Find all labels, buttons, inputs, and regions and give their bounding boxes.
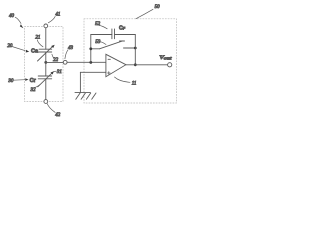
svg-text:Ca: Ca: [31, 48, 39, 54]
terminal 43: [63, 60, 67, 64]
wire Cr to terminal 42: [45, 79, 47, 100]
label 53: [95, 40, 106, 45]
label 52: [95, 22, 107, 29]
label 22: [52, 54, 59, 63]
svg-text:21: 21: [35, 36, 40, 41]
node switch left: [89, 47, 92, 50]
node switch right: [134, 47, 137, 50]
svg-text:43: 43: [68, 46, 74, 51]
label 41: [48, 13, 60, 23]
node output junction: [134, 63, 137, 66]
wire CF branch left: [91, 34, 112, 36]
svg-text:30: 30: [8, 79, 14, 84]
capacitor CF: [112, 29, 115, 39]
sensor dashed box 40: [25, 27, 64, 102]
label 50: [136, 5, 160, 19]
wire terminal 43 to op-amp inverting input: [67, 61, 106, 63]
terminal Vout: [168, 63, 172, 67]
label 30: [8, 78, 28, 84]
label 42: [47, 103, 61, 118]
svg-text:41: 41: [55, 13, 60, 18]
label 20: [7, 44, 29, 52]
label 11: [115, 77, 137, 86]
label 43: [65, 46, 74, 59]
label 21: [35, 36, 43, 47]
amplifier dashed box 50: [84, 19, 177, 103]
svg-text:Vout: Vout: [159, 55, 172, 61]
svg-text:52: 52: [95, 22, 101, 27]
label Vout: [159, 55, 172, 61]
wire non-inverting input: [80, 72, 106, 92]
wire node to terminal 43: [46, 61, 64, 63]
wire Ca to Cr: [45, 52, 47, 76]
op-amp U11: [106, 54, 126, 76]
wire CF branch right: [115, 34, 136, 36]
svg-text:42: 42: [55, 113, 61, 118]
svg-text:CF: CF: [119, 25, 126, 31]
label 32: [31, 85, 41, 93]
svg-text:Cr: Cr: [30, 78, 37, 84]
svg-text:53: 53: [95, 40, 101, 45]
svg-text:32: 32: [31, 88, 37, 93]
terminal 41: [44, 24, 48, 28]
capacitor Cr (variable): [38, 71, 54, 87]
svg-text:40: 40: [9, 14, 15, 19]
wire feedback left vertical: [90, 35, 92, 63]
node junction between Ca and Cr: [44, 61, 47, 64]
ground: [75, 93, 96, 100]
switch 53: [91, 41, 136, 49]
wire output: [126, 64, 168, 66]
node feedback/input junction: [89, 61, 92, 64]
label 31: [54, 70, 62, 75]
svg-text:11: 11: [132, 81, 137, 86]
label 40: [9, 14, 23, 28]
svg-text:50: 50: [155, 5, 161, 10]
svg-text:31: 31: [57, 70, 62, 75]
wire feedback right vertical: [134, 35, 136, 65]
capacitor Ca (variable): [38, 45, 55, 61]
terminal 42: [44, 100, 48, 104]
wire 41 to Ca: [45, 28, 47, 49]
